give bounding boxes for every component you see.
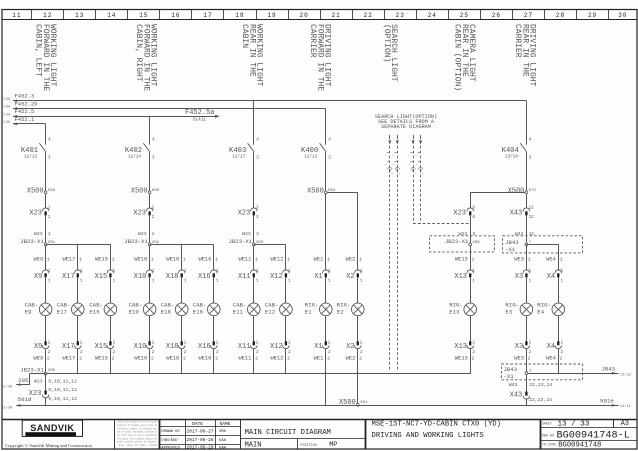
wire WE1 conductor 2: X1 down to 501d bus: [325, 349, 327, 406]
svg-text:2: 2: [215, 356, 218, 362]
connector X2 pin 2 (lower): [355, 345, 362, 348]
connector X17 pin 1 (upper): [75, 270, 82, 273]
connector X15 pin 2 (lower): [107, 345, 114, 348]
Sandvik logo box: [22, 420, 82, 436]
connector X15 pin 1 (upper): [107, 270, 114, 273]
search light wire 3 terminal ticks: [410, 152, 413, 154]
svg-text:2: 2: [184, 350, 187, 355]
wire WE9 conductor 2: connector to return bus: [45, 349, 47, 374]
lamp RIG-E4: [552, 303, 565, 316]
lamp RIG-E1: [320, 303, 333, 316]
svg-text:2: 2: [80, 350, 83, 355]
svg-text:1: 1: [113, 278, 116, 283]
wire: lamp RIG-E4 down to connector X4 pin 2: [558, 316, 560, 341]
svg-text:X23: X23: [453, 210, 466, 218]
wire: X13 to lamp RIG-E13: [470, 278, 472, 303]
wire WE15 conductor 1: branch down to connector X15: [110, 244, 112, 270]
svg-text:-x: -x: [391, 154, 395, 157]
wire: X15 to lamp CAB-E15: [110, 278, 112, 303]
search light option dashed wire 4: [420, 135, 422, 139]
svg-text:E13: E13: [449, 309, 460, 316]
wire: X2 to lamp RIG-E2: [357, 278, 359, 303]
wire WE4 conductor 2: X4 down to JB43-X1 bus: [558, 349, 560, 374]
svg-text:DWG NO: DWG NO: [542, 434, 554, 438]
svg-text:573: 573: [529, 189, 537, 193]
svg-text:CARRIER: CARRIER: [513, 24, 522, 58]
svg-text:F452.5a: F452.5a: [185, 109, 214, 117]
svg-text:W23: W23: [242, 231, 251, 237]
svg-text:CABIN (OPTION): CABIN (OPTION): [453, 24, 462, 91]
svg-text:1: 1: [183, 256, 186, 262]
svg-text:6/29: 6/29: [2, 120, 11, 125]
wire WE3 conductor 1 down to connector X3: [526, 246, 528, 270]
connector X11 pin 1 (upper): [251, 270, 258, 273]
svg-text:WE18: WE18: [166, 356, 179, 362]
svg-text:14/11: 14/11: [620, 404, 631, 409]
svg-text:JB23-X1: JB23-X1: [124, 238, 148, 245]
connector X4 pin 1 (upper): [555, 270, 562, 273]
svg-text:1: 1: [256, 269, 259, 274]
wire: lamp E15 to connector X15 pin 2: [110, 316, 112, 341]
svg-text:1: 1: [288, 278, 291, 283]
svg-text:DRAWN BY: DRAWN BY: [161, 430, 180, 434]
svg-text:W23: W23: [34, 231, 43, 237]
wire: junction branch bus: [254, 244, 286, 246]
connector X16 pin 2 (lower): [211, 345, 218, 348]
search light wire 3 connector symbol: [411, 167, 415, 169]
svg-text:1: 1: [152, 278, 155, 283]
svg-text:E10: E10: [129, 309, 140, 316]
lamp RIG-E3: [520, 303, 533, 316]
svg-text:WE12: WE12: [271, 256, 284, 262]
wire: contact to connector X23:3: [253, 152, 255, 208]
svg-text:1: 1: [529, 278, 532, 283]
svg-text:X3: X3: [515, 343, 523, 351]
wire: contact to terminal X500:573: [526, 152, 528, 191]
svg-text:12/13: 12/13: [24, 155, 37, 160]
svg-text:JB43: JB43: [504, 366, 517, 373]
connector X16 pin 1 (upper): [211, 270, 218, 273]
wire WE18 conductor 1: branch down to connector X18: [181, 244, 183, 270]
relay contact K401: [39, 143, 45, 152]
search light wire 4 connector symbol: [418, 167, 422, 169]
svg-text:2: 2: [256, 341, 259, 346]
svg-text:X11: X11: [238, 343, 251, 351]
svg-text:MSE-1ST-NC7-YD-CABIN CTX0 (YD): MSE-1ST-NC7-YD-CABIN CTX0 (YD): [372, 421, 501, 429]
svg-text:VRA: VRA: [219, 430, 227, 434]
svg-text:1: 1: [151, 256, 154, 262]
svg-text:X4: X4: [547, 343, 555, 351]
svg-text:WE11: WE11: [238, 256, 251, 262]
relay contact K402: [143, 143, 149, 152]
svg-text:12/12: 12/12: [304, 155, 317, 160]
wire WE1 conductor 1: X500 down to connector X1: [325, 194, 327, 270]
svg-text:DL411: DL411: [193, 118, 206, 123]
svg-text:WE3: WE3: [514, 256, 524, 262]
svg-text:VAA: VAA: [219, 439, 227, 443]
svg-text:1: 1: [48, 278, 51, 283]
svg-text:-x: -x: [414, 154, 418, 157]
svg-text:X10: X10: [134, 273, 147, 281]
wire: X3 to lamp RIG-E3: [526, 278, 528, 303]
svg-text:22: 22: [364, 12, 373, 19]
svg-text:2: 2: [216, 341, 219, 346]
svg-text:E16: E16: [193, 309, 204, 316]
search light option dashed wire 1: [389, 135, 391, 139]
svg-text:1: 1: [561, 269, 564, 274]
svg-text:X16: X16: [198, 343, 211, 351]
svg-text:2: 2: [328, 350, 331, 355]
wire: junction branch bus: [46, 244, 111, 246]
wire WE10 conductor 1: branch down to connector X10: [149, 246, 151, 270]
junction node JB23-X1:208: [469, 243, 472, 246]
svg-text:2017-06-29: 2017-06-29: [187, 445, 214, 451]
svg-text:1: 1: [48, 269, 51, 274]
svg-text:X500: X500: [27, 187, 44, 195]
wire: X43 down to 501d bus: [526, 399, 528, 405]
svg-text:208: 208: [472, 241, 480, 245]
svg-text:2: 2: [561, 350, 564, 355]
svg-text:2: 2: [529, 341, 532, 346]
svg-text:APPROVED: APPROVED: [161, 446, 180, 450]
svg-text:3: 3: [256, 232, 259, 237]
svg-text:F452.1: F452.1: [15, 116, 36, 123]
wire W23 conductor 1: X23 to junction JB23-X1:201: [45, 216, 47, 244]
svg-text:X43: X43: [510, 210, 523, 218]
wire WE16 conductor 2: connector to return bus: [213, 349, 215, 374]
connector X3 pin 2 (lower): [523, 345, 530, 348]
wire: X4 to lamp RIG-E4: [558, 278, 560, 303]
svg-text:X500: X500: [307, 187, 324, 195]
svg-text:F452.3: F452.3: [15, 93, 35, 100]
search light wire 2 connector symbol: [395, 167, 399, 169]
search light option dashed wire 3: [413, 135, 415, 139]
wire WE17 conductor 1: branch down to connector X17: [77, 244, 79, 270]
terminal X500:600: [148, 191, 151, 194]
svg-text:21/12: 21/12: [620, 373, 631, 378]
svg-text:WE17: WE17: [62, 256, 75, 262]
svg-text:21: 21: [332, 12, 341, 19]
svg-text:1: 1: [288, 269, 291, 274]
svg-text:3: 3: [48, 156, 51, 161]
svg-text:F452.2b: F452.2b: [15, 100, 38, 107]
svg-text:Copyright © Sandvik Mining and: Copyright © Sandvik Mining and Construct…: [5, 443, 93, 448]
wire W43 conductor 12 down to junction JB43-X1:7: [526, 216, 528, 244]
svg-text:A3: A3: [621, 420, 629, 428]
wire W23 conductor 8 down to junction JB23-X1:208: [470, 216, 472, 244]
wire: lamp E16 to connector X16 pin 2: [213, 316, 215, 341]
svg-text:W43: W43: [509, 382, 518, 388]
wire W23 conductor 3: X23 to junction JB23-X1:203: [253, 216, 255, 244]
wire WE3 conductor 2: X3 down into JB43-X1 node: [526, 349, 528, 392]
svg-text:-x: -x: [414, 163, 418, 166]
svg-text:2: 2: [113, 341, 116, 346]
svg-text:12: 12: [529, 232, 535, 237]
svg-text:W43: W43: [515, 231, 524, 237]
svg-text:22,23,24: 22,23,24: [529, 397, 552, 403]
svg-text:1: 1: [216, 269, 219, 274]
svg-text:2: 2: [288, 350, 291, 355]
wire: JB43-X1 lower bus out to sheet 21/12: [528, 373, 619, 375]
relay contact K403: [248, 143, 254, 152]
svg-text:1: 1: [184, 278, 187, 283]
svg-text:SANDVIK: SANDVIK: [30, 423, 74, 433]
svg-text:WE18: WE18: [166, 256, 179, 262]
svg-text:1: 1: [79, 256, 82, 262]
svg-text:W23: W23: [34, 379, 43, 385]
svg-text:24: 24: [428, 12, 437, 19]
connector X13 pin 1 (upper): [467, 270, 474, 273]
svg-text:ID-CODE: ID-CODE: [542, 443, 556, 447]
svg-text:1: 1: [80, 269, 83, 274]
svg-text:MAIN: MAIN: [245, 441, 262, 449]
svg-text:12: 12: [529, 205, 535, 210]
terminal X500:501 on 501d bus: [356, 403, 359, 406]
svg-text:1: 1: [472, 256, 475, 262]
svg-text:13/19: 13/19: [505, 155, 518, 160]
svg-text:WE1: WE1: [314, 256, 324, 262]
connector X23 pin 8 (upper): [467, 208, 474, 211]
svg-text:2: 2: [152, 215, 155, 220]
wire: K404 drop from F452.3: [526, 101, 528, 145]
svg-text:2: 2: [529, 350, 532, 355]
svg-text:2: 2: [472, 341, 475, 346]
svg-text:1: 1: [360, 278, 363, 283]
svg-text:1: 1: [256, 278, 259, 283]
svg-text:17: 17: [203, 12, 212, 19]
svg-text:2: 2: [183, 356, 186, 362]
svg-text:2: 2: [184, 341, 187, 346]
svg-text:E4: E4: [537, 309, 544, 316]
wire: X17 to lamp CAB-E17: [77, 278, 79, 303]
svg-text:X12: X12: [270, 273, 283, 281]
wire: tap from X500:573 node to camera drop: [470, 192, 526, 194]
revision table: [185, 419, 187, 449]
svg-text:2: 2: [112, 356, 115, 362]
svg-text:JB23-X1: JB23-X1: [20, 367, 44, 374]
svg-text:205: 205: [18, 377, 29, 384]
connector X18 pin 2 (lower): [178, 345, 185, 348]
svg-text:and more of this sheet: and more of this sheet: [117, 443, 157, 447]
svg-text:X11: X11: [238, 273, 251, 281]
connector X13 pin 2 (lower): [467, 345, 474, 348]
svg-text:1: 1: [327, 256, 330, 262]
svg-text:1: 1: [328, 269, 331, 274]
svg-text:X12: X12: [270, 343, 283, 351]
wire: X16 to lamp CAB-E16: [213, 278, 215, 303]
svg-text:VAA: VAA: [219, 446, 227, 450]
connector X43 pins 22,23,24 (lower): [523, 396, 530, 399]
svg-text:2: 2: [152, 232, 155, 237]
svg-text:CAB-: CAB-: [89, 302, 103, 309]
title block frame: [2, 419, 637, 421]
wire: junction branch to X4 drop: [526, 244, 558, 246]
svg-text:1: 1: [472, 269, 475, 274]
svg-text:X17: X17: [62, 273, 75, 281]
svg-text:1: 1: [360, 269, 363, 274]
svg-text:E18: E18: [161, 309, 172, 316]
svg-text:3: 3: [256, 156, 259, 161]
svg-text:JB43: JB43: [505, 239, 518, 246]
svg-text:20: 20: [300, 12, 309, 19]
svg-text:25: 25: [460, 12, 469, 19]
svg-text:-x: -x: [383, 154, 387, 157]
svg-text:1: 1: [560, 256, 563, 262]
lamp CAB-E16: [208, 303, 221, 316]
svg-text:8: 8: [473, 232, 476, 237]
svg-text:E17: E17: [57, 309, 67, 316]
svg-text:DRIVING AND WORKING LIGHTS: DRIVING AND WORKING LIGHTS: [372, 432, 484, 440]
svg-text:4: 4: [48, 138, 51, 143]
lamp CAB-E17: [72, 303, 85, 316]
svg-text:1: 1: [47, 256, 50, 262]
wire W23 conductor 2: X23 to junction JB23-X1:202: [149, 216, 151, 244]
svg-text:CHECKED: CHECKED: [161, 439, 178, 443]
svg-text:E3: E3: [505, 309, 512, 316]
svg-text:2: 2: [472, 356, 475, 362]
svg-text:30: 30: [618, 12, 627, 19]
lamp CAB-E9: [39, 303, 52, 316]
svg-text:MAIN CIRCUIT DIAGRAM: MAIN CIRCUIT DIAGRAM: [245, 429, 331, 437]
lamp RIG-E2: [352, 303, 365, 316]
svg-text:27: 27: [524, 12, 533, 19]
wire: bus rises to connector X13: [470, 348, 472, 373]
svg-text:1: 1: [529, 269, 532, 274]
junction node JB23-X1:201: [44, 243, 47, 246]
svg-text:2: 2: [79, 356, 82, 362]
svg-text:WE4: WE4: [546, 356, 556, 362]
svg-text:2: 2: [216, 350, 219, 355]
svg-text:CAB-: CAB-: [265, 302, 279, 309]
svg-text:1: 1: [48, 232, 51, 237]
svg-text:1: 1: [216, 278, 219, 283]
svg-text:WE13: WE13: [455, 356, 468, 362]
svg-text:2: 2: [113, 350, 116, 355]
svg-text:22,23,24: 22,23,24: [529, 382, 552, 388]
svg-text:2: 2: [561, 341, 564, 346]
svg-text:X15: X15: [95, 343, 108, 351]
svg-text:2: 2: [472, 350, 475, 355]
wire WE13 conductor 1 down to connector X13: [470, 246, 472, 270]
svg-text:CAB-: CAB-: [25, 302, 39, 309]
svg-text:3: 3: [152, 156, 155, 161]
svg-text:WE16: WE16: [198, 256, 211, 262]
svg-text:BG00941748-L: BG00941748-L: [557, 431, 630, 442]
dashed option box around JB23-X1:208: [430, 236, 495, 252]
wire: lamp RIG-E3 down to connector X3 pin 2: [526, 316, 528, 341]
connector X12 pin 1 (upper): [283, 270, 290, 273]
wire WE18 conductor 2: connector to return bus: [181, 349, 183, 374]
wire: contact to terminal X500:599: [45, 152, 47, 191]
svg-text:WE2: WE2: [346, 256, 356, 262]
relay contact K404: [520, 143, 526, 152]
wire: X500:573 down to connector X43:12: [526, 194, 528, 208]
wire: lamp RIG-E1 down to connector X1 pin 2: [325, 316, 327, 341]
svg-text:WE15: WE15: [95, 256, 108, 262]
svg-text:WE2: WE2: [346, 356, 356, 362]
svg-text:SHEET: SHEET: [542, 423, 552, 427]
wire WE11 conductor 2: connector to return bus: [253, 349, 255, 374]
svg-text:14: 14: [107, 12, 116, 19]
junction node JB23-X1:205: [44, 372, 47, 375]
svg-text:-x: -x: [406, 154, 410, 157]
search light option dashed link to camera circuit: [413, 223, 470, 225]
wire: K403 drop from bus to contact: [253, 101, 255, 145]
svg-text:2: 2: [255, 356, 258, 362]
svg-text:2: 2: [360, 341, 363, 346]
svg-text:8: 8: [472, 205, 475, 210]
svg-text:WE1: WE1: [314, 356, 324, 362]
svg-text:JB23-X1: JB23-X1: [445, 238, 469, 245]
svg-text:X10: X10: [134, 343, 147, 351]
svg-text:WE9: WE9: [33, 356, 43, 362]
wire WE9 conductor 1: branch down to connector X9: [45, 246, 47, 270]
svg-text:4: 4: [256, 138, 259, 143]
svg-text:1: 1: [561, 278, 564, 283]
connector X11 pin 2 (lower): [251, 345, 258, 348]
junction node JB43-X1:7: [525, 243, 528, 246]
svg-text:26: 26: [492, 12, 501, 19]
svg-text:1: 1: [152, 269, 155, 274]
lamp CAB-E12: [280, 303, 293, 316]
svg-text:X2: X2: [346, 273, 354, 281]
svg-text:1: 1: [528, 256, 531, 262]
svg-text:4: 4: [529, 138, 532, 143]
svg-text:X23: X23: [29, 210, 42, 218]
ground return bus 501d / 501e: [16, 405, 619, 407]
svg-text:2: 2: [48, 350, 51, 355]
svg-text:DATE: DATE: [192, 421, 203, 427]
svg-text:18: 18: [235, 12, 244, 19]
connector X17 pin 2 (lower): [75, 345, 82, 348]
svg-text:WE10: WE10: [134, 256, 147, 262]
connector X10 pin 1 (upper): [146, 270, 153, 273]
svg-text:WE16: WE16: [198, 356, 211, 362]
terminal X500:573: [525, 191, 528, 194]
svg-text:CAB-: CAB-: [129, 302, 143, 309]
connector X23 pin 1 (upper): [42, 208, 49, 211]
svg-text:X15: X15: [95, 273, 108, 281]
wire WE16 conductor 1: branch down to connector X16: [213, 244, 215, 270]
svg-text:E11: E11: [233, 309, 244, 316]
svg-text:600: 600: [152, 189, 160, 193]
svg-text:28: 28: [556, 12, 565, 19]
wire: K402 drop from bus to contact: [149, 116, 151, 144]
wire: K400 drop from F452.2b: [325, 109, 327, 145]
svg-text:WE9: WE9: [33, 256, 43, 262]
svg-text:WE13: WE13: [455, 256, 468, 262]
svg-text:X9: X9: [34, 273, 42, 281]
wire: X23 down to 501d bus: [45, 398, 47, 406]
svg-text:1: 1: [48, 215, 51, 220]
wire WE17 conductor 2: connector to return bus: [77, 349, 79, 374]
svg-text:2: 2: [327, 356, 330, 362]
dashed option box around JB43-X1 upper: [503, 236, 583, 253]
lamp RIG-E13: [464, 303, 477, 316]
connector X12 pin 2 (lower): [283, 345, 290, 348]
svg-text:RIG-: RIG-: [505, 302, 519, 309]
svg-text:4: 4: [328, 138, 331, 143]
svg-text:6/28: 6/28: [2, 112, 11, 117]
wire: lamp E18 to connector X18 pin 2: [181, 316, 183, 341]
connector X9 pin 2 (lower): [42, 345, 49, 348]
svg-text:23: 23: [396, 12, 405, 19]
svg-text:11/30: 11/30: [2, 385, 13, 390]
svg-text:9,10,11,12: 9,10,11,12: [48, 379, 77, 385]
svg-text:12/14: 12/14: [128, 155, 141, 160]
wire: X12 to lamp CAB-E12: [285, 278, 287, 303]
svg-text:E2: E2: [337, 309, 344, 316]
